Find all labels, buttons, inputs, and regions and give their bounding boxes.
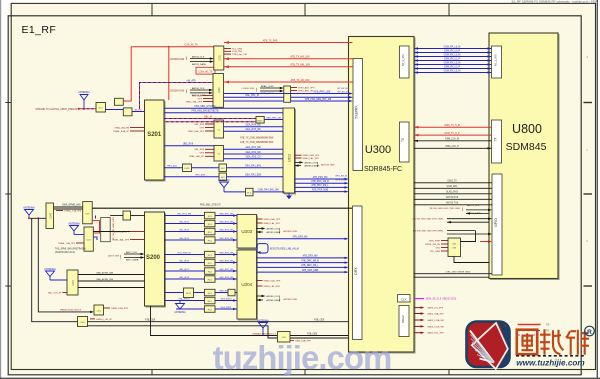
red stub U232 left label — [58, 242, 84, 245]
antenna ANT7 bottom — [257, 319, 269, 335]
pin bank U800 GPIO — [492, 174, 502, 275]
svg-text:TXBAL_L9A_9P9: TXBAL_L9A_9P9 — [64, 209, 82, 212]
pins U202 left arrows — [170, 87, 213, 97]
svg-text:GE3_RX6_B9: GE3_RX6_B9 — [219, 260, 234, 262]
svg-text:TXBAL_E9A_9P: TXBAL_E9A_9P — [113, 130, 130, 133]
logo chinese characters — [517, 329, 589, 355]
svg-text:GM63_GAL_9P9: GM63_GAL_9P9 — [303, 154, 320, 157]
wire blue U302 to U300 drx1 — [295, 176, 349, 180]
svg-text:GEA_RX2_M9: GEA_RX2_M9 — [245, 151, 261, 154]
svg-text:ATB_DRX_M9: ATB_DRX_M9 — [293, 236, 309, 239]
cap C220 — [228, 289, 235, 296]
svg-text:CSA_W_T9: CSA_W_T9 — [184, 44, 198, 47]
wire dashed S201 to R210 red-blue pair — [164, 116, 256, 122]
ground U302 bottom — [286, 193, 292, 199]
svg-text:ANTENNA: ANTENNA — [174, 311, 186, 314]
svg-text:GEA_RX2_C9: GEA_RX2_C9 — [246, 156, 262, 159]
svg-text:SDR845-FC: SDR845-FC — [364, 166, 402, 173]
cap C201 — [115, 98, 124, 105]
net label U241 rows — [96, 271, 114, 281]
wire pair FL230 to U300 — [290, 336, 348, 339]
svg-text:GM63_L31A_9M: GM63_L31A_9M — [427, 319, 444, 322]
wire blue U203 to U302 b — [224, 128, 284, 131]
IC U241 — [67, 270, 78, 295]
svg-text:PRX_MB1_5/70/170: PRX_MB1_5/70/170 — [195, 106, 217, 108]
wire red ATB_TX_HB — [224, 56, 353, 61]
svg-text:GE3_RX1_B9: GE3_RX1_B9 — [219, 213, 234, 215]
filter bank row10 — [205, 297, 216, 304]
svg-text:GM63_GAL_9P9: GM63_GAL_9P9 — [264, 218, 281, 221]
svg-text:GM63_LAL_9P9: GM63_LAL_9P9 — [303, 157, 320, 160]
svg-text:UB1_RX9: UB1_RX9 — [183, 144, 194, 146]
svg-text:GEA_RX1_M9: GEA_RX1_M9 — [245, 146, 261, 149]
svg-text:GSM_RX_L1_M: GSM_RX_L1_M — [444, 54, 461, 56]
svg-text:GSL_RX8: GSL_RX8 — [179, 277, 190, 279]
svg-text:GMA_L9A_9M: GMA_L9A_9M — [115, 126, 130, 129]
svg-text:COEX0 GN9: COEX0 GN9 — [241, 88, 254, 90]
svg-text:ANT7 GN9: ANT7 GN9 — [108, 254, 119, 257]
antenna ANT4 — [68, 222, 84, 234]
svg-text:ANT7_CLK: ANT7_CLK — [126, 251, 138, 254]
wire U243 second output — [88, 326, 278, 338]
svg-text:U241: U241 — [72, 279, 75, 285]
svg-text:(TB 930) GND GND (TB/L GN9): (TB 930) GND GND (TB/L GN9) — [429, 208, 460, 210]
svg-text:ATB_DRX_M9: ATB_DRX_M9 — [303, 255, 319, 258]
IC U240 tuner — [46, 203, 54, 229]
wire red LC between U230 U232 — [93, 221, 100, 233]
wire blue U302 to U300 drx4 — [295, 188, 349, 192]
svg-text:GSM_RX4_B41_9M: GSM_RX4_B41_9M — [258, 190, 279, 192]
pins gpio stub arrows b — [412, 218, 492, 224]
svg-text:GMA_SPME_9A9: GMA_SPME_9A9 — [62, 203, 81, 206]
svg-text:GE3_RX7_B9: GE3_RX7_B9 — [219, 269, 234, 271]
wire bus S200 to filters and U303 — [165, 216, 238, 241]
arrows into U303 — [233, 214, 237, 241]
wire blue ATB_PRX_LB — [224, 90, 353, 95]
svg-text:STRAND TX GALTDA_APMT_RNDIV9: STRAND TX GALTDA_APMT_RNDIV9 — [35, 108, 77, 111]
filter FL220 — [184, 288, 194, 298]
svg-text:CSA_W_T9: CSA_W_T9 — [199, 69, 213, 73]
labels maroon stubs — [427, 308, 444, 335]
arrows into U300 drx — [345, 257, 349, 274]
svg-text:S200: S200 — [146, 255, 161, 261]
svg-text:GE3_RX11: GE3_RX11 — [221, 307, 233, 309]
svg-text:(TB 930 GND GND GPIO ON9): (TB 930 GND GND GPIO ON9) — [412, 219, 443, 221]
svg-text:ATB_GE9: ATB_GE9 — [307, 332, 318, 335]
svg-text:(FASTRAD9 CLK1): (FASTRAD9 CLK1) — [55, 251, 75, 254]
svg-text:ATB_GE9: ATB_GE9 — [314, 319, 325, 322]
svg-text:SDA2: SDA2 — [401, 315, 405, 323]
IC U203 — [214, 120, 224, 138]
diplexer U206 — [183, 164, 192, 172]
filter FL201 — [96, 103, 106, 113]
svg-text:GEA_RX3_M9: GEA_RX3_M9 — [245, 128, 261, 131]
net labels bottom pair — [307, 332, 318, 335]
svg-text:TDL_GN9: TDL_GN9 — [232, 48, 243, 50]
red stub U230 top left — [56, 209, 82, 212]
wire FL202 to S201 blue — [132, 108, 145, 111]
wire blue U204 to U302 b — [224, 151, 284, 154]
wire riser from S200 bottom — [151, 306, 278, 336]
pin bank U300 TX&PRX — [353, 59, 363, 171]
pins U302 right black arrows — [295, 161, 336, 167]
svg-text:GSL_RX2: GSL_RX2 — [179, 221, 190, 223]
IC S200 — [145, 212, 165, 306]
pins gpio stub arrows c — [413, 231, 492, 236]
wire bus S200 to filters and U304 — [165, 255, 238, 310]
wire blue U302 to U300 drx3 — [295, 184, 349, 188]
filter FL202 — [123, 108, 132, 116]
antenna ANT1 — [78, 91, 90, 109]
svg-text:GM63_L31_9P9: GM63_L31_9P9 — [427, 308, 444, 310]
svg-text:GSL_RX7: GSL_RX7 — [179, 269, 190, 271]
wire red ATB_TX_MB — [224, 64, 353, 69]
svg-text:ATB_TX_CM9_WB/WB3M9 9N9: ATB_TX_CM9_WB/WB3M9 9N9 — [240, 137, 274, 140]
pins U243 left arrows — [90, 319, 112, 321]
IC U304 — [237, 250, 257, 319]
svg-text:TXBAL_L9A_9P9: TXBAL_L9A_9P9 — [58, 242, 76, 245]
svg-text:FL22: FL22 — [186, 293, 192, 295]
svg-text:GP_RX_B: GP_RX_B — [337, 92, 348, 94]
svg-text:SDM845: SDM845 — [506, 141, 547, 153]
filter bank row7 — [205, 268, 216, 275]
net label box CSA_W_T9 — [196, 67, 215, 74]
pins U242 left arrows — [38, 218, 94, 313]
filter bank row4 — [205, 237, 216, 244]
svg-text:ANT63_CLK: ANT63_CLK — [192, 56, 205, 59]
svg-text:uW_AT9: uW_AT9 — [186, 79, 196, 82]
svg-text:ATB_PRX_M9B: ATB_PRX_M9B — [312, 188, 329, 191]
svg-text:GM63_V3A_9P9: GM63_V3A_9P9 — [427, 312, 444, 315]
svg-text:GSM_CLK_P: GSM_CLK_P — [445, 146, 459, 148]
net labels gpio rows — [446, 181, 459, 205]
svg-text:GP9: GP9 — [198, 98, 203, 100]
arrows into U304 — [233, 253, 237, 310]
svg-text:CM1363 GN9: CM1363 GN9 — [170, 59, 185, 61]
svg-text:GP_RX_M: GP_RX_M — [337, 88, 348, 90]
filter bank row2 — [205, 220, 216, 227]
svg-text:ANT63_DATA: ANT63_DATA — [192, 63, 206, 66]
pins U302 right red stubs — [295, 154, 320, 160]
svg-text:ATB_PRX_LB9: ATB_PRX_LB9 — [314, 90, 331, 93]
block shadows — [146, 34, 560, 353]
svg-text:ANT67_DATA: ANT67_DATA — [467, 212, 481, 215]
svg-text:ATB_TX_HB_1N9: ATB_TX_HB_1N9 — [290, 56, 310, 59]
pins U300 right maroon stubs bottom — [414, 308, 422, 333]
wire dashed riser to U202 — [140, 79, 214, 109]
wire red tx pair — [414, 125, 492, 129]
svg-text:U800: U800 — [512, 122, 542, 136]
svg-text:tuzhijie.com: tuzhijie.com — [213, 339, 392, 376]
frame tick right — [584, 103, 593, 287]
pins U304 right black arrows — [257, 295, 298, 302]
svg-text:CLK: CLK — [401, 298, 407, 302]
wire black gpio rows — [414, 183, 492, 205]
svg-text:GEN_PRX_M9: GEN_PRX_M9 — [266, 117, 281, 119]
svg-text:U240: U240 — [49, 212, 52, 218]
loop link symbol — [257, 244, 299, 254]
svg-text:U202: U202 — [218, 87, 221, 93]
svg-text:GE3_RX3_B9: GE3_RX3_B9 — [219, 229, 234, 231]
logo fan pages — [470, 331, 494, 363]
pins U204 left maroon stubs — [189, 149, 214, 158]
svg-text:PAS_SM1_5/70/170: PAS_SM1_5/70/170 — [200, 204, 221, 207]
svg-text:GBA_APME_9B9: GBA_APME_9B9 — [96, 278, 114, 281]
wire black clk pair — [414, 139, 492, 142]
pins S200 left black arrows — [108, 251, 144, 262]
svg-text:ANT63 TX9: ANT63 TX9 — [446, 202, 459, 205]
filter bank row11 — [205, 306, 216, 313]
logo icon rounded square — [467, 318, 515, 371]
wire blue S201 to U204 — [164, 144, 214, 146]
wire blue U203 to U302 a — [224, 124, 284, 127]
svg-text:DRX: DRX — [354, 267, 358, 275]
pin bank U300 CLK — [398, 295, 411, 303]
svg-text:GP9: GP9 — [200, 153, 205, 155]
svg-text:ANT67_CLK: ANT67_CLK — [467, 204, 480, 207]
svg-text:PRX_B39: PRX_B39 — [195, 175, 205, 177]
svg-text:AT_TA_GE_ASM_NR9: AT_TA_GE_ASM_NR9 — [112, 217, 115, 240]
svg-text:ANT63X GN9: ANT63X GN9 — [321, 163, 335, 166]
antenna ANT6 — [174, 300, 186, 314]
svg-text:ANTENNA: ANTENNA — [23, 206, 35, 209]
svg-text:R9: R9 — [546, 323, 550, 327]
svg-text:GSM_TX_H_M: GSM_TX_H_M — [444, 125, 460, 127]
zone letter marks right — [587, 55, 589, 335]
wire blue PRX_HB from S201 — [164, 111, 283, 113]
wire blue S201 FL row2 — [164, 176, 283, 178]
svg-text:PRX_HB1_B41/B2T/B2TB: PRX_HB1_B41/B2T/B2TB — [191, 111, 219, 113]
svg-text:CM1364 GN9: CM1364 GN9 — [170, 91, 185, 93]
svg-text:SLAD_RX9: SLAD_RX9 — [446, 191, 458, 194]
svg-text:SPK9_ANT_9M: SPK9_ANT_9M — [298, 89, 314, 92]
svg-text:GM63_SGL_9P9: GM63_SGL_9P9 — [427, 333, 444, 335]
svg-text:ATB_TX_PA9: ATB_TX_PA9 — [263, 39, 278, 42]
svg-text:GP9: GP9 — [200, 127, 205, 129]
svg-text:GSM(A)9 BAL(GND)_L9: GSM(A)9 BAL(GND)_L9 — [252, 332, 277, 335]
svg-text:PRX_B41: PRX_B41 — [167, 166, 177, 168]
svg-text:GPS_RX_B: GPS_RX_B — [335, 180, 347, 182]
svg-text:BOOST9_RES_LNB_AN_M: BOOST9_RES_LNB_AN_M — [270, 248, 299, 251]
svg-text:M_1_RX: M_1_RX — [401, 54, 405, 66]
net labels ATB_TX rows — [240, 137, 274, 144]
IC U204 — [214, 146, 224, 162]
filter bank row3 — [205, 228, 216, 235]
svg-text:GMB1_BAL_9P9: GMB1_BAL_9P9 — [112, 238, 129, 241]
wire dark pair U240 to U230 — [54, 207, 83, 209]
svg-text:ANT63 RX9: ANT63 RX9 — [446, 196, 459, 199]
red stub U242 right — [104, 307, 129, 310]
label row1 — [167, 165, 262, 168]
pins S200 left maroon stubs — [112, 230, 144, 241]
wire blue antenna to FL205 — [224, 191, 285, 193]
wire blue U204 to U302 a — [224, 146, 284, 149]
svg-text:ATB_PRX_M9_L: ATB_PRX_M9_L — [311, 184, 329, 187]
wire black clk pair b — [414, 146, 492, 149]
svg-text:TAS_SPMI_9A9 (FASTRAD9): TAS_SPMI_9A9 (FASTRAD9) — [55, 248, 86, 251]
wire blue U304 to U300 drx rows — [257, 258, 348, 272]
wire blue R210 to U302 — [264, 117, 283, 119]
filter bank row5 — [205, 251, 216, 257]
svg-text:ATB_DRX_M9B: ATB_DRX_M9B — [302, 269, 319, 272]
wire red ATB_TX_LB — [224, 79, 353, 84]
pin bank U300 TX — [400, 122, 410, 162]
svg-text:GE3_RX10: GE3_RX10 — [220, 298, 232, 300]
svg-text:ATB_PRX_MB1_B2T_M9: ATB_PRX_MB1_B2T_M9 — [305, 98, 332, 101]
svg-text:(FASW GNS) GBVC9: (FASW GNS) GBVC9 — [60, 308, 82, 311]
filter FL204 — [219, 173, 227, 181]
net label ctrl — [445, 272, 470, 274]
wire blue U303 to U300 — [257, 236, 349, 240]
pins U303 right black arrows — [257, 227, 298, 234]
logo diamond book cover — [472, 323, 508, 369]
svg-text:YBB2_GAL_9P: YBB2_GAL_9P — [189, 155, 205, 158]
IC U300 — [349, 37, 415, 353]
wire red ATB_TX_PA — [224, 39, 353, 44]
svg-text:GSL_RX3: GSL_RX3 — [179, 229, 190, 231]
net labels S200 to U303 — [177, 213, 234, 240]
pins U205 right maroon stubs — [291, 86, 315, 92]
wire dark U241 to S200 rows — [78, 275, 145, 288]
IC U230 — [83, 202, 93, 224]
svg-text:GSL_RX1_M9: GSL_RX1_M9 — [177, 213, 192, 215]
svg-text:ANT64_CLK: ANT64_CLK — [192, 87, 205, 90]
svg-text:UB1_RX9: UB1_RX9 — [194, 149, 205, 151]
svg-text:GNSS_SW_9N: GNSS_SW_9N — [425, 244, 440, 246]
svg-text:TPK_GEM: TPK_GEM — [430, 251, 441, 253]
svg-text:A9_RX: A9_RX — [135, 108, 142, 111]
svg-text:YBB2_GAL_9P9: YBB2_GAL_9P9 — [188, 130, 205, 133]
svg-text:GEA_RX1_B39: GEA_RX1_B39 — [245, 174, 262, 177]
char zhi — [540, 329, 564, 355]
svg-text:ANTENNA: ANTENNA — [68, 222, 80, 225]
svg-text:M_1_RX: M_1_RX — [494, 54, 498, 66]
svg-text:SDM_GE_R_9 (TB/GE GOO): SDM_GE_R_9 (TB/GE GOO) — [426, 299, 456, 301]
net label TAS_SPMI — [55, 248, 86, 255]
pins U203 left maroon stubs — [188, 124, 214, 133]
svg-text:GSL_RX5_M: GSL_RX5_M — [178, 252, 191, 254]
pins U201 left arrows — [170, 56, 214, 66]
svg-text:ATB_TX_LB_1N9: ATB_TX_LB_1N9 — [291, 79, 310, 82]
net labels rx bus — [444, 46, 461, 72]
svg-text:U302: U302 — [288, 154, 292, 162]
antenna ANT2 mid — [218, 179, 230, 192]
pins U202 left maroon stubs — [203, 96, 213, 102]
net labels S200 to U304 — [178, 252, 234, 308]
labels U801 left — [425, 240, 441, 253]
IC U303 — [237, 215, 257, 249]
char tu — [517, 330, 537, 355]
wire blue U302 to U300 drx2 — [295, 180, 349, 184]
svg-text:ANT7_DATA: ANT7_DATA — [126, 259, 139, 262]
pin bank U300 SDA — [399, 306, 409, 337]
svg-text:GE3_RX8_B9: GE3_RX8_B9 — [219, 277, 234, 279]
svg-text:ATB_DRX_M9_B: ATB_DRX_M9_B — [301, 259, 319, 262]
red arrow into gpio — [480, 240, 492, 242]
svg-text:ATB_DRX_M9_L: ATB_DRX_M9_L — [301, 264, 319, 267]
pin bank U300 M_1_RX — [400, 46, 410, 78]
svg-text:SPK9_ANT_9P9: SPK9_ANT_9P9 — [298, 86, 315, 89]
wire blue PRX_MB from S201 — [164, 106, 283, 108]
IC U201 — [214, 46, 224, 70]
svg-text:GSM_TX_H_P: GSM_TX_H_P — [444, 133, 460, 135]
wire blue U204 to U302 c — [224, 156, 284, 159]
svg-text:GMS(L)_GE_9P: GMS(L)_GE_9P — [96, 319, 112, 321]
pins U300 left lower blue stub labels — [335, 175, 347, 181]
IC U800 — [489, 33, 558, 279]
svg-text:SYM_PN9: SYM_PN9 — [232, 51, 243, 53]
svg-text:GBL_W: GBL_W — [204, 116, 213, 118]
pins U201 right maroon stubs — [224, 49, 231, 55]
svg-text:GE3_RX5_B9: GE3_RX5_B9 — [219, 252, 234, 254]
IC U202 — [213, 74, 224, 108]
svg-text:E1_RF: E1_RF — [22, 24, 57, 36]
svg-text:GEA_RX4_M9: GEA_RX4_M9 — [245, 124, 261, 127]
switch U243 — [78, 317, 88, 327]
svg-text:R: R — [587, 329, 592, 336]
pins U300 left blue stub labels — [337, 88, 348, 94]
svg-text:GSM_RX_L2_P: GSM_RX_L2_P — [444, 66, 461, 68]
svg-text:19M: 19M — [452, 248, 456, 250]
pin bank U300 DRX — [353, 206, 363, 340]
svg-text:GPS_RX_M: GPS_RX_M — [335, 175, 347, 177]
svg-text:GSM_CLK_M: GSM_CLK_M — [445, 139, 459, 141]
svg-text:GM63_LAL_9P9: GM63_LAL_9P9 — [264, 222, 281, 225]
wire blue ATB_PRX_MB b — [224, 98, 353, 103]
svg-text:ANT66X GN9: ANT66X GN9 — [284, 298, 298, 301]
svg-text:GMB1_GAL_9P9: GMB1_GAL_9P9 — [112, 230, 130, 233]
antenna ANT3 — [23, 206, 35, 218]
svg-text:GSM_RX_L0_P: GSM_RX_L0_P — [444, 50, 461, 52]
pins coex arrows into RF switch — [241, 85, 283, 95]
label row2 — [195, 174, 262, 177]
svg-text:GM63_L31S_9M: GM63_L31S_9M — [427, 326, 444, 328]
svg-text:GM66_LAL_9P9: GM66_LAL_9P9 — [264, 285, 281, 288]
wire U801 to gpio a — [454, 231, 489, 263]
svg-text:GSM_RX_L1_P: GSM_RX_L1_P — [444, 58, 461, 60]
pin bank U800 TX — [492, 120, 502, 163]
svg-text:ANT65X GN9: ANT65X GN9 — [284, 230, 298, 233]
wire ant3 to U240 — [28, 217, 46, 219]
filter bank row6 — [205, 259, 216, 266]
svg-text:GSM9_LNA_9P9: GSM9_LNA_9P9 — [111, 307, 129, 310]
svg-text:R9: R9 — [546, 329, 550, 333]
char jie — [566, 330, 589, 355]
svg-text:ATB_TX_CM9_WB/WB3M9 9N9: ATB_TX_CM9_WB/WB3M9 9N9 — [240, 141, 274, 144]
svg-text:U201: U201 — [218, 54, 221, 60]
svg-text:ANTENNA: ANTENNA — [44, 268, 56, 271]
svg-text:CTRL_GE9 (TB/GE GN9): CTRL_GE9 (TB/GE GN9) — [445, 272, 470, 274]
wire dark U232 to S200 a — [93, 231, 130, 233]
pin bank U800 M_1_RX — [492, 46, 502, 78]
pin U241 left maroon stub — [48, 292, 67, 294]
svg-text:GN1: GN1 — [436, 247, 441, 249]
wire bus blue rx top — [414, 49, 492, 73]
wire blue stub U232 — [93, 216, 97, 241]
svg-text:TXB3_dpx_VM: TXB3_dpx_VM — [232, 54, 247, 56]
svg-text:U300: U300 — [365, 144, 391, 156]
svg-text:GSM_RX_L2_M: GSM_RX_L2_M — [444, 62, 461, 64]
arrows maroon stubs — [421, 306, 425, 334]
filter FL205 — [246, 188, 254, 196]
wire FL201 to FL202 blue — [106, 109, 124, 111]
svg-text:GSM_RX_L0_M: GSM_RX_L0_M — [444, 46, 461, 48]
svg-text:www.tuzhijie.com: www.tuzhijie.com — [516, 358, 584, 367]
pins U303 right red stubs — [257, 218, 281, 225]
frame tick top — [152, 3, 449, 15]
wire blue ATB_PRX_MB a — [224, 95, 353, 99]
filter FL230 bottom — [278, 332, 291, 343]
